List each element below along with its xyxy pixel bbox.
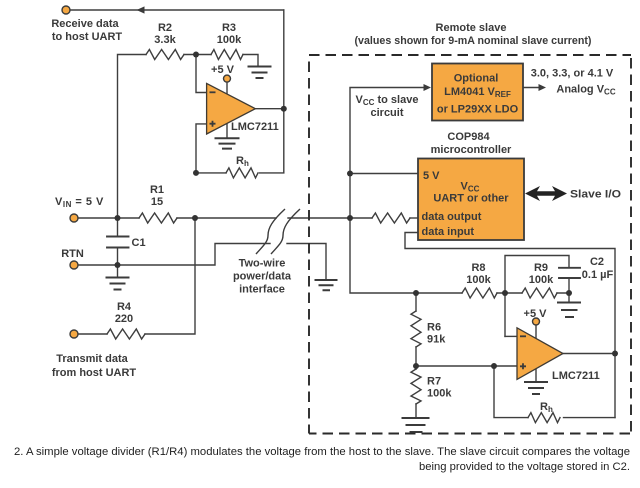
capacitor C2 xyxy=(559,268,580,278)
double arrow Slave I/O xyxy=(525,186,567,201)
ground R7 xyxy=(402,418,430,432)
resistor R2 xyxy=(146,50,184,60)
ground RTN slave xyxy=(315,280,338,290)
svg-text:C2: C2 xyxy=(590,256,604,268)
svg-text:Optional: Optional xyxy=(454,73,499,85)
svg-text:interface: interface xyxy=(239,284,285,296)
wire VIN row xyxy=(78,217,139,219)
svg-text:5 V: 5 V xyxy=(423,170,440,182)
wire R8 row xyxy=(416,292,569,294)
wire R7 column xyxy=(415,366,417,418)
node Rh2 tap xyxy=(491,363,497,369)
wire Rh2 row xyxy=(494,366,615,418)
node R8-R9 xyxy=(502,290,508,296)
ground under op-amp U1 xyxy=(215,138,240,148)
node 5V pin xyxy=(347,171,353,177)
svg-text:R8: R8 xyxy=(471,262,485,274)
wire data input COP984 xyxy=(405,233,615,418)
wire RTN into slave xyxy=(287,244,326,281)
wire R2 left to VIN node xyxy=(118,55,147,219)
wire LDO output arrow line xyxy=(523,87,541,89)
wire C2 node riser xyxy=(505,256,569,337)
op-amp U2 xyxy=(517,328,563,380)
wire 5V pin COP984 xyxy=(350,173,418,175)
wire ground stub U2 xyxy=(535,369,537,382)
box LDO optional xyxy=(432,64,523,121)
svg-text:LMC7211: LMC7211 xyxy=(231,121,279,133)
svg-text:or LP29XX LDO: or LP29XX LDO xyxy=(437,104,519,116)
terminal VIN xyxy=(70,214,78,222)
wire C2 ground stub xyxy=(568,293,570,302)
terminal receive data xyxy=(62,6,70,14)
wire noninverting input U1 xyxy=(196,124,207,173)
two-wire break squiggle 2 xyxy=(271,209,300,254)
wire output riser op-amp U1 xyxy=(283,10,285,109)
ground RTN host xyxy=(106,278,130,290)
arrowhead into LDO xyxy=(424,84,432,91)
svg-text:from host UART: from host UART xyxy=(52,367,137,379)
ground C2 xyxy=(557,303,581,318)
svg-text:microcontroller: microcontroller xyxy=(431,144,512,156)
wire R6 column xyxy=(415,293,417,366)
svg-text:2. A simple voltage divider (R: 2. A simple voltage divider (R1/R4) modu… xyxy=(14,446,630,458)
node U1 output xyxy=(281,106,287,112)
dashed remote slave border xyxy=(309,55,631,434)
arrowhead LDO output xyxy=(539,84,547,91)
svg-text:circuit: circuit xyxy=(370,107,403,119)
svg-text:15: 15 xyxy=(151,196,163,208)
node R9-C2 xyxy=(566,290,572,296)
svg-text:UART or other: UART or other xyxy=(433,193,509,205)
svg-text:Slave I/O: Slave I/O xyxy=(570,189,621,201)
wire R3 right to ground xyxy=(243,55,258,67)
terminal transmit xyxy=(70,330,78,338)
wire ground stub U1 xyxy=(226,124,228,138)
svg-text:R1: R1 xyxy=(150,184,164,196)
two-wire break squiggle 1 xyxy=(256,209,285,254)
svg-text:being provided to the voltage: being provided to the voltage stored in … xyxy=(419,461,630,473)
svg-text:0.1 µF: 0.1 µF xyxy=(582,269,614,281)
svg-text:data input: data input xyxy=(422,226,475,238)
svg-text:Two-wire: Two-wire xyxy=(239,258,286,270)
svg-text:C1: C1 xyxy=(132,237,146,249)
svg-text:100k: 100k xyxy=(217,34,242,46)
wire U1 output xyxy=(255,108,283,110)
wire R2-R3 xyxy=(184,54,211,56)
node R2-R3 xyxy=(193,52,199,58)
wire RTN row xyxy=(78,244,270,266)
svg-text:(values shown for 9-mA nominal: (values shown for 9-mA nominal slave cur… xyxy=(355,35,592,47)
node R8 left xyxy=(413,290,419,296)
resistor R3 xyxy=(211,50,243,60)
resistor R9 xyxy=(522,288,557,298)
resistor R6 xyxy=(411,311,421,347)
svg-text:100k: 100k xyxy=(427,388,452,400)
wire inverting input U2 xyxy=(505,335,517,337)
wire +5V stub U1 xyxy=(226,82,228,95)
terminal +5V U2 xyxy=(533,318,540,325)
node R1 right xyxy=(192,215,198,221)
svg-text:3.0, 3.3, or 4.1 V: 3.0, 3.3, or 4.1 V xyxy=(531,68,614,80)
wire +5V stub U2 xyxy=(535,325,537,339)
svg-text:data output: data output xyxy=(422,211,482,223)
svg-text:R7: R7 xyxy=(427,376,441,388)
svg-text:100k: 100k xyxy=(466,274,491,286)
svg-text:R9: R9 xyxy=(534,262,548,274)
wire node to inverting input U1 xyxy=(196,55,207,93)
wire U2 output xyxy=(563,353,615,355)
svg-text:+5 V: +5 V xyxy=(211,64,235,76)
svg-text:RTN: RTN xyxy=(61,248,84,260)
svg-text:R2: R2 xyxy=(158,22,172,34)
svg-text:R4: R4 xyxy=(117,301,132,313)
resistor R8 xyxy=(462,288,497,298)
box COP984 xyxy=(418,159,524,241)
arrowhead receive data xyxy=(137,6,145,13)
svg-text:3.3k: 3.3k xyxy=(154,34,176,46)
resistor Rh1 xyxy=(226,168,258,178)
wire R4 row xyxy=(78,218,195,334)
svg-text:VIN = 5 V: VIN = 5 V xyxy=(55,196,104,209)
node Rh1 left xyxy=(193,170,199,176)
terminal RTN xyxy=(70,261,78,269)
svg-text:+5 V: +5 V xyxy=(524,308,548,320)
svg-text:LMC7211: LMC7211 xyxy=(552,370,600,382)
svg-text:Receive data: Receive data xyxy=(51,18,119,30)
resistor R7 xyxy=(411,369,421,404)
svg-text:100k: 100k xyxy=(529,274,554,286)
svg-text:91k: 91k xyxy=(427,334,446,346)
svg-text:R6: R6 xyxy=(427,322,441,334)
wire data line into slave xyxy=(288,217,372,219)
svg-text:R3: R3 xyxy=(222,22,236,34)
wire ground stub RTN xyxy=(117,265,119,278)
svg-text:COP984: COP984 xyxy=(447,131,490,143)
svg-text:220: 220 xyxy=(115,313,133,325)
wire R1 to line break xyxy=(177,217,276,219)
resistor series data xyxy=(372,213,410,223)
terminal +5V U1 xyxy=(224,75,231,82)
node VIN xyxy=(115,215,121,221)
svg-text:Transmit data: Transmit data xyxy=(56,353,128,365)
svg-text:to host UART: to host UART xyxy=(52,31,123,43)
node R6-R7 xyxy=(413,363,419,369)
resistor R1 xyxy=(139,213,177,223)
ground for R3 xyxy=(248,67,272,79)
node data tap xyxy=(347,215,353,221)
op-amp U1 xyxy=(207,83,256,134)
node U2 output xyxy=(612,351,618,357)
wire noninverting row U2 xyxy=(416,365,517,367)
capacitor C1 xyxy=(107,237,129,248)
wire top receive-data xyxy=(70,9,284,11)
resistor R4 xyxy=(107,329,145,339)
ground under op-amp U2 xyxy=(524,382,548,394)
wire Vcc riser slave xyxy=(350,88,423,294)
wire resistor to COP984 xyxy=(410,217,418,219)
node RTN xyxy=(115,262,121,268)
svg-text:power/data: power/data xyxy=(233,271,292,283)
wire Rh1 row xyxy=(196,109,284,173)
svg-text:Remote slave: Remote slave xyxy=(436,22,507,34)
resistor Rh2 xyxy=(528,413,560,423)
